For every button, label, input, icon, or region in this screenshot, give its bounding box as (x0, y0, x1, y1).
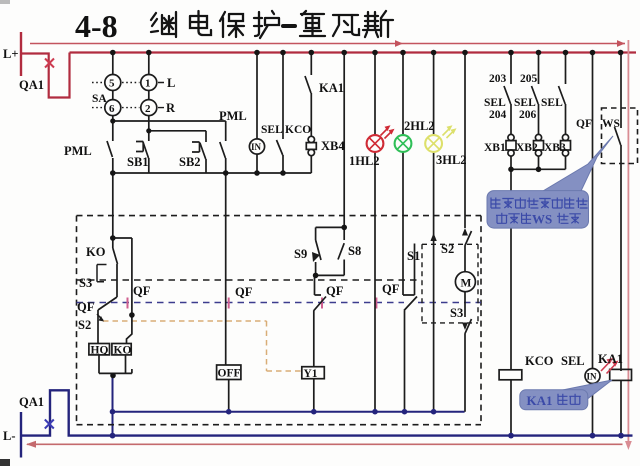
svg-text:6: 6 (109, 103, 115, 115)
svg-text:IN: IN (251, 142, 262, 152)
svg-text:QF: QF (326, 284, 344, 298)
svg-text:WS: WS (532, 212, 552, 227)
svg-text:205: 205 (520, 73, 538, 85)
svg-text:XB1: XB1 (484, 142, 506, 154)
svg-text:KA1: KA1 (527, 393, 553, 408)
svg-text:OFF: OFF (218, 368, 241, 380)
svg-text:S9: S9 (294, 247, 307, 261)
svg-text:SEL: SEL (514, 97, 536, 109)
svg-text:Y1: Y1 (304, 368, 318, 380)
svg-text:S3: S3 (450, 306, 463, 320)
svg-text:M: M (461, 278, 472, 290)
svg-text:L+: L+ (3, 47, 18, 61)
svg-text:QF: QF (382, 282, 400, 296)
svg-text:IN: IN (587, 372, 598, 382)
svg-text:2: 2 (145, 103, 151, 115)
svg-text:1HL2: 1HL2 (349, 154, 380, 168)
svg-text:206: 206 (519, 109, 537, 121)
svg-text:204: 204 (489, 109, 507, 121)
svg-text:L: L (167, 76, 175, 90)
svg-text:S3: S3 (79, 276, 92, 290)
svg-text:QA1: QA1 (19, 78, 44, 92)
svg-text:SEL: SEL (261, 124, 283, 136)
svg-text:1: 1 (145, 78, 151, 90)
svg-text:3HL2: 3HL2 (436, 153, 467, 167)
svg-text:KO: KO (86, 245, 106, 259)
svg-text:QA1: QA1 (19, 395, 44, 409)
svg-text:XB3: XB3 (544, 142, 566, 154)
svg-text:KCO: KCO (285, 124, 311, 136)
svg-text:XB2: XB2 (516, 142, 538, 154)
svg-text:HQ: HQ (91, 345, 109, 357)
svg-text:KO: KO (114, 345, 132, 357)
svg-text:S1: S1 (407, 249, 420, 263)
svg-text:XB4: XB4 (321, 139, 345, 153)
svg-text:2HL2: 2HL2 (404, 119, 435, 133)
svg-text:KA1: KA1 (598, 352, 623, 366)
svg-text:SA: SA (92, 93, 107, 105)
svg-text:PML: PML (219, 109, 247, 123)
svg-text:S2: S2 (78, 318, 91, 332)
svg-text:SEL: SEL (484, 97, 506, 109)
svg-text:WS: WS (602, 118, 620, 130)
svg-text:KA1: KA1 (319, 81, 344, 95)
svg-text:SEL: SEL (561, 354, 585, 368)
svg-text:SB2: SB2 (179, 155, 201, 169)
svg-text:S2: S2 (441, 242, 454, 256)
svg-text:L-: L- (3, 429, 16, 443)
svg-text:PML: PML (64, 144, 92, 158)
svg-text:KCO: KCO (525, 354, 554, 368)
svg-text:SEL: SEL (541, 97, 563, 109)
svg-text:5: 5 (109, 78, 115, 90)
svg-text:SB1: SB1 (127, 155, 149, 169)
svg-text:QF: QF (576, 118, 592, 130)
svg-text:4-8: 4-8 (75, 8, 118, 44)
svg-text:S8: S8 (348, 244, 361, 258)
svg-text:QF: QF (133, 284, 151, 298)
svg-text:QF: QF (235, 285, 253, 299)
svg-text:R: R (166, 101, 176, 115)
svg-text:203: 203 (489, 73, 507, 85)
svg-text:QF: QF (77, 300, 95, 314)
